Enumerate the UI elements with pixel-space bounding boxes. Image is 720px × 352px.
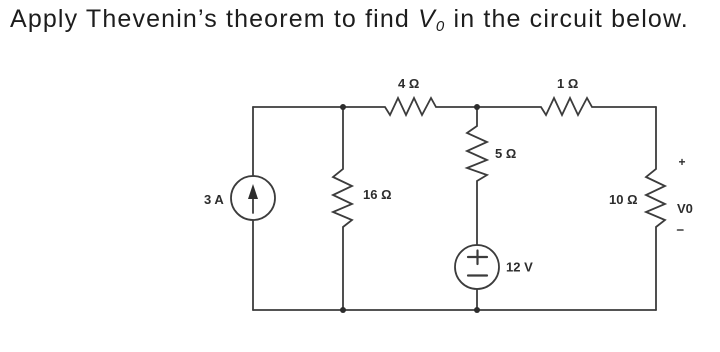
- svg-text:+: +: [679, 155, 686, 169]
- svg-text:5 Ω: 5 Ω: [495, 146, 516, 161]
- svg-text:V0: V0: [677, 201, 693, 216]
- svg-text:10 Ω: 10 Ω: [609, 192, 638, 207]
- svg-text:12 V: 12 V: [506, 260, 533, 275]
- svg-text:4 Ω: 4 Ω: [398, 76, 419, 91]
- svg-text:16 Ω: 16 Ω: [363, 187, 392, 202]
- svg-text:1 Ω: 1 Ω: [557, 76, 578, 91]
- svg-text:3 A: 3 A: [204, 192, 224, 207]
